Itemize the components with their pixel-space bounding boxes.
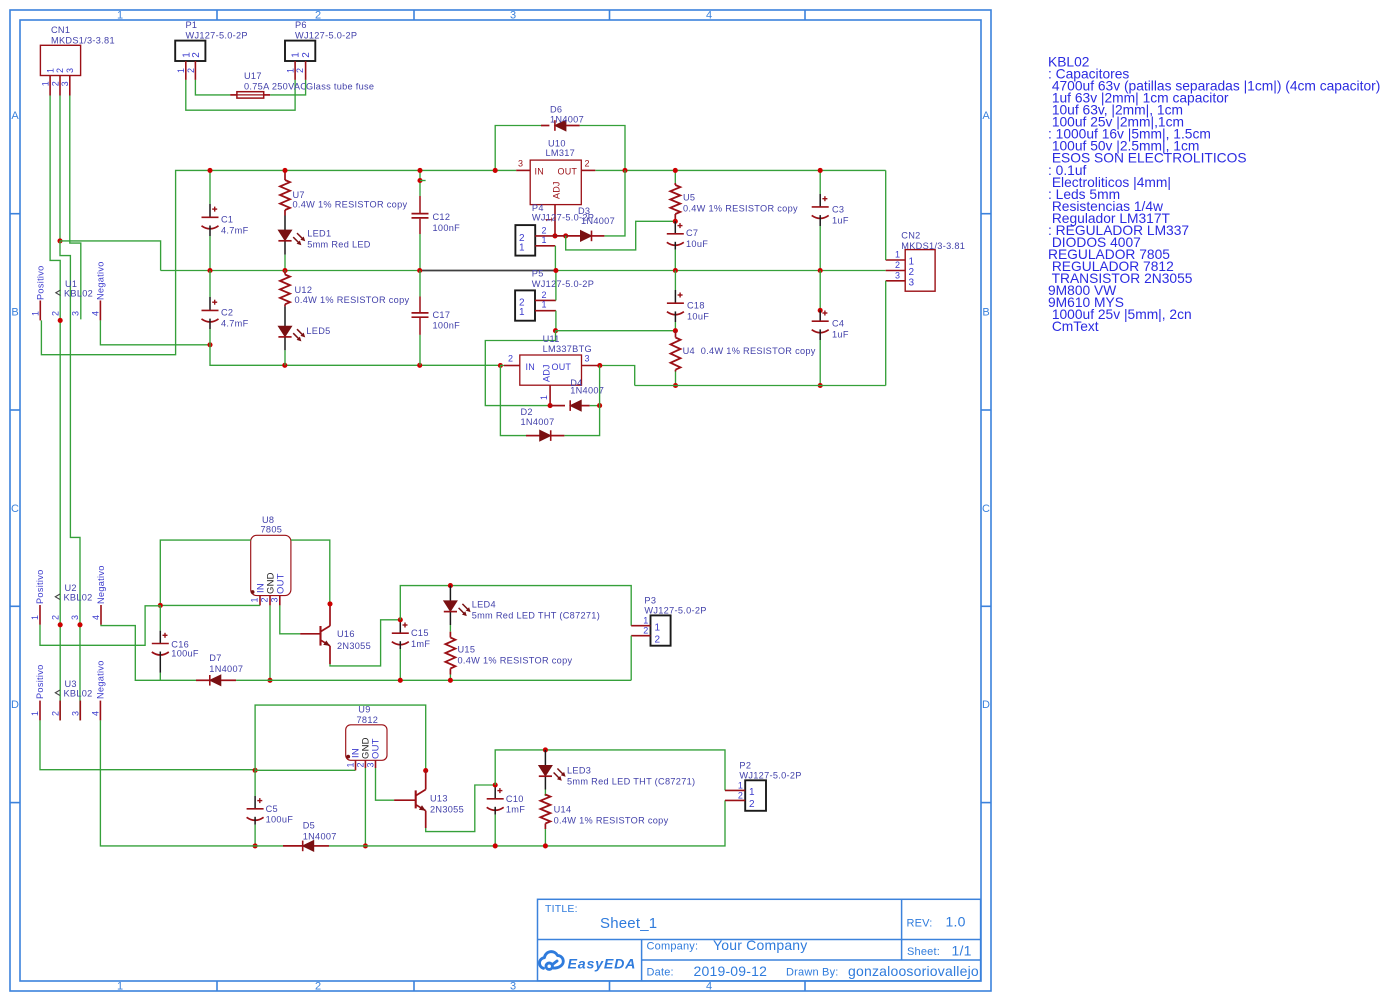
junction U13 collector (423, 768, 428, 773)
junction U15 bottom (448, 678, 453, 683)
svg-text:KBL02: KBL02 (64, 593, 93, 603)
svg-text:2: 2 (315, 981, 321, 993)
svg-text:1N4007: 1N4007 (303, 831, 337, 841)
wire P5.1 to ADJ node (555, 311, 557, 331)
svg-text:2: 2 (895, 260, 900, 270)
regulator U10 LM317 (530, 160, 581, 205)
junction U1 pin2 (58, 318, 63, 323)
capacitor C16 (159, 605, 161, 630)
svg-text:0.4W 1% RESISTOR copy: 0.4W 1% RESISTOR copy (295, 295, 410, 305)
svg-text:A: A (982, 110, 990, 122)
svg-text:3: 3 (60, 81, 70, 86)
wire CN1.2 to U2.3 to U3.3 (60, 241, 80, 721)
svg-text:C3: C3 (832, 204, 844, 214)
transistor U16 2N3055 (300, 633, 320, 635)
junction U2 pin3 (77, 622, 82, 627)
svg-text:2: 2 (186, 68, 196, 73)
svg-text:U1: U1 (65, 279, 77, 289)
wire mid rail green right (556, 270, 886, 272)
svg-text:0.4W 1% RESISTOR copy: 0.4W 1% RESISTOR copy (554, 815, 669, 825)
svg-text:1: 1 (895, 250, 900, 260)
svg-text:U16: U16 (337, 629, 355, 639)
svg-text:2: 2 (585, 159, 590, 169)
wire C2 bottom to neg rail (210, 345, 500, 366)
junction LED3 top (543, 747, 548, 752)
svg-text:REV:: REV: (907, 918, 933, 930)
junction U5 top (673, 168, 678, 173)
svg-text:1: 1 (176, 68, 186, 73)
svg-text:3: 3 (269, 597, 279, 602)
svg-text:1uF: 1uF (832, 215, 849, 225)
svg-text:2: 2 (738, 790, 743, 800)
wire ADJ to U5-C7 node (566, 221, 676, 250)
svg-text:Negativo: Negativo (96, 261, 106, 300)
wire U9 top feed (255, 705, 426, 771)
svg-text:P3: P3 (644, 595, 656, 605)
junction U11 ADJ (548, 403, 553, 408)
capacitor C5 (254, 770, 256, 796)
svg-text:CN2: CN2 (901, 230, 920, 240)
LED LED4 (449, 586, 451, 601)
svg-text:1N4007: 1N4007 (209, 664, 243, 674)
wire U8.3 OUT to base (280, 605, 300, 633)
junction U16 collector (327, 601, 332, 606)
wire 5V node to P3.1 (400, 586, 631, 626)
svg-text:2: 2 (315, 10, 321, 22)
svg-text:OUT: OUT (558, 166, 578, 176)
bridge rectifier U2 (39, 605, 41, 625)
svg-text:1: 1 (30, 711, 40, 716)
junction U11 IN (498, 363, 503, 368)
svg-text:2: 2 (655, 634, 661, 645)
junction C3 bottom (818, 268, 823, 273)
diode D5 (283, 845, 303, 847)
svg-text:Positivo: Positivo (36, 265, 46, 300)
svg-text:1: 1 (45, 68, 55, 73)
junction ADJ (552, 233, 557, 238)
junction U8 GND (267, 678, 272, 683)
junction C4 top (818, 308, 823, 313)
svg-text:3: 3 (585, 354, 590, 364)
svg-text:0.4W 1% RESISTOR copy: 0.4W 1% RESISTOR copy (683, 204, 798, 214)
svg-text:MKDS1/3-3.81: MKDS1/3-3.81 (901, 241, 965, 251)
junction U4 bottom (673, 383, 678, 388)
svg-text:U3: U3 (65, 679, 77, 689)
junction LED5 bottom (282, 363, 287, 368)
svg-text:U10: U10 (548, 139, 566, 149)
svg-text:1: 1 (909, 257, 915, 268)
svg-text:1.0: 1.0 (946, 914, 966, 930)
svg-text:2: 2 (295, 68, 305, 73)
svg-text:P4: P4 (532, 203, 544, 213)
junction C12 bottom (417, 268, 422, 273)
wire U11 IN down (500, 366, 526, 436)
junction U2 pin2 (58, 622, 63, 627)
svg-text:C10: C10 (506, 794, 524, 804)
svg-text:LED3: LED3 (567, 766, 591, 776)
junction D4 right (597, 403, 602, 408)
svg-text:2: 2 (191, 52, 202, 58)
svg-text:U2: U2 (65, 583, 77, 593)
wire IN top feed right (291, 540, 330, 603)
svg-text:C5: C5 (266, 804, 278, 814)
svg-text:3: 3 (71, 711, 81, 716)
svg-text:Positivo: Positivo (35, 664, 45, 699)
svg-text:D: D (982, 699, 990, 711)
wire ADJ net to U11 ADJ (485, 331, 555, 406)
svg-text:WJ127-5.0-2P: WJ127-5.0-2P (739, 771, 801, 781)
wire gnd rail mid (236, 679, 631, 681)
wire D3 to OUT (604, 170, 625, 236)
svg-text:U15: U15 (458, 644, 476, 654)
svg-text:1: 1 (542, 235, 547, 245)
svg-text:1mF: 1mF (506, 805, 525, 815)
svg-text:1: 1 (539, 395, 549, 400)
svg-text:C17: C17 (433, 310, 451, 320)
svg-text:C1: C1 (221, 215, 233, 225)
wire D4 right (590, 405, 600, 407)
svg-text:WJ127-5.0-2P: WJ127-5.0-2P (295, 31, 357, 41)
svg-text:7812: 7812 (357, 715, 379, 725)
wire P3.2 to gnd rail (630, 636, 632, 681)
svg-text:Negativo: Negativo (96, 660, 106, 699)
svg-text:LED1: LED1 (307, 229, 331, 239)
regulator U9 7812 (346, 725, 387, 761)
wire IN top feed (160, 540, 250, 605)
svg-text:C7: C7 (686, 228, 698, 238)
wire 12V gnd rail (329, 800, 725, 846)
svg-text:WJ127-5.0-2P: WJ127-5.0-2P (644, 606, 706, 616)
wire fuse to P6.2 (270, 80, 305, 95)
svg-text:U14: U14 (554, 804, 572, 814)
svg-text:100uF: 100uF (171, 648, 199, 658)
U11 pin 1 ADJ (549, 385, 551, 405)
wire U2.1 to C16 node (40, 606, 160, 646)
diode D2 (526, 435, 540, 437)
svg-text:U4: U4 (683, 346, 695, 356)
svg-text:C12: C12 (433, 212, 451, 222)
capacitor C15 (399, 620, 401, 633)
svg-text:D5: D5 (303, 821, 315, 831)
svg-text:Sheet:: Sheet: (907, 946, 940, 958)
svg-text:2019-09-12: 2019-09-12 (694, 963, 768, 979)
svg-text:1: 1 (749, 787, 755, 798)
connector P4 (515, 225, 535, 256)
svg-text:4: 4 (706, 10, 712, 22)
junction U11 OUT (597, 363, 602, 368)
wire U2.4 to gnd rail (101, 625, 196, 681)
U9 pins (355, 761, 357, 771)
junction U14 bottom (543, 843, 548, 848)
resistor U14 (544, 794, 546, 796)
svg-text:2: 2 (50, 711, 60, 716)
svg-text:OUT: OUT (370, 738, 381, 759)
svg-text:C: C (982, 503, 990, 515)
svg-text:CN1: CN1 (51, 25, 70, 35)
svg-text:4: 4 (706, 981, 712, 993)
U10 pin 1 ADJ (554, 205, 556, 236)
resistor U12 (284, 271, 286, 272)
junction C15 bottom (398, 678, 403, 683)
svg-text:3: 3 (510, 10, 516, 22)
svg-text:P2: P2 (739, 760, 751, 770)
resistor U15 (449, 632, 451, 638)
junction D6 left (493, 168, 498, 173)
U11 pin 2 IN (504, 365, 520, 367)
junction CN1.2 branch (57, 238, 62, 243)
junction C3 top (818, 168, 823, 173)
diode D7 (196, 679, 210, 681)
LED LED3 (544, 750, 546, 766)
notes text block (1048, 55, 1380, 335)
regulator U11 LM337BTG (520, 355, 582, 385)
svg-text:4: 4 (91, 311, 101, 316)
svg-text:C15: C15 (411, 628, 429, 638)
svg-text:1: 1 (117, 10, 123, 22)
svg-text:TITLE:: TITLE: (545, 903, 578, 915)
svg-text:3: 3 (70, 615, 80, 620)
connector CN2 (905, 250, 935, 292)
junction C17 bottom (417, 363, 422, 368)
junction C18 bottom (673, 328, 678, 333)
svg-text:C2: C2 (221, 308, 233, 318)
svg-text:3: 3 (909, 278, 915, 289)
diode D4 (550, 405, 565, 407)
junction OUT rail (622, 168, 627, 173)
svg-text:2: 2 (50, 311, 60, 316)
wire ADJ net to C18 (556, 330, 676, 332)
svg-text:WJ127-5.0-2P: WJ127-5.0-2P (532, 279, 594, 289)
svg-text:2: 2 (643, 626, 648, 636)
svg-text:U9: U9 (358, 705, 370, 715)
svg-text:100uF: 100uF (266, 815, 294, 825)
connector P3 (651, 615, 671, 645)
wire U1.1 to top rail (41, 170, 516, 354)
wire U16 emitter to C15 node (330, 620, 400, 666)
wire mid rail to P5.2 (555, 271, 557, 301)
svg-text:2: 2 (356, 762, 366, 767)
svg-text:1uF: 1uF (832, 330, 849, 340)
capacitor C2 (209, 271, 211, 298)
junction C5 bottom (253, 843, 258, 848)
svg-text:2: 2 (542, 290, 547, 300)
U8 pins (259, 596, 261, 606)
LED LED5 (284, 306, 286, 326)
sheet frame (10, 10, 991, 991)
svg-text:4.7mF: 4.7mF (221, 226, 249, 236)
svg-text:Drawn By:: Drawn By: (786, 967, 839, 979)
junction ADJ net (553, 328, 558, 333)
svg-text:3: 3 (65, 68, 75, 73)
capacitor C17 (419, 271, 421, 297)
svg-text:2: 2 (50, 615, 60, 620)
svg-text:1: 1 (41, 81, 51, 86)
connector CN1 (40, 45, 80, 75)
resistor U5 (674, 170, 676, 183)
svg-text:3: 3 (365, 762, 375, 767)
svg-text:WJ127-5.0-2P: WJ127-5.0-2P (186, 31, 248, 41)
junction C15 top (398, 617, 403, 622)
svg-text:C4: C4 (832, 319, 844, 329)
wire CN2.3 to neg out rail (885, 281, 887, 386)
U11 pin 3 OUT (582, 365, 598, 367)
wire neg out rail (635, 385, 886, 387)
svg-text:1: 1 (346, 762, 356, 767)
wire to mid rail (60, 241, 161, 271)
U10 pin 2 OUT (581, 169, 595, 171)
svg-text:3: 3 (71, 311, 81, 316)
svg-text:7805: 7805 (261, 524, 283, 534)
wire U8.2 GND down (269, 605, 271, 680)
svg-text:Negativo: Negativo (96, 565, 106, 604)
svg-text:KBL02: KBL02 (64, 289, 93, 299)
svg-text:100nF: 100nF (433, 320, 461, 330)
svg-text:D: D (11, 699, 19, 711)
junction C2 bottom (207, 342, 212, 347)
junction ADJ branch (563, 233, 568, 238)
capacitor C3 (819, 170, 821, 194)
svg-text:C: C (11, 503, 19, 515)
wire 12V in to U9.1 (255, 769, 355, 771)
capacitor C10 (494, 785, 496, 799)
transistor U13 2N3055 (394, 799, 416, 801)
wire top rail to CN2.1 (885, 170, 887, 260)
wire U13 emitter to C10 node (426, 785, 496, 832)
svg-text:2: 2 (749, 799, 755, 810)
svg-text:2N3055: 2N3055 (337, 641, 371, 651)
svg-text:IN: IN (535, 166, 544, 176)
junction C10 bottom (493, 843, 498, 848)
svg-text:1mF: 1mF (411, 639, 430, 649)
wire mid rail black segment (420, 270, 556, 272)
connector P2 (745, 780, 766, 811)
junction U7 top (282, 168, 287, 173)
svg-text:4: 4 (91, 615, 101, 620)
connector P1 (175, 41, 205, 61)
connector P5 (515, 290, 535, 320)
wire D6 left (495, 126, 541, 171)
wire CN1.2 down (59, 96, 61, 241)
fuse U17 (230, 94, 237, 96)
svg-text:B: B (982, 307, 989, 319)
diode D6 (541, 125, 549, 127)
wire mid rail green left (161, 270, 420, 272)
connector P6 (285, 41, 315, 61)
svg-text:1: 1 (30, 615, 40, 620)
svg-text:1: 1 (286, 68, 296, 73)
svg-text:10uF: 10uF (687, 312, 709, 322)
svg-text:Your Company: Your Company (713, 937, 808, 953)
svg-text:2N3055: 2N3055 (430, 804, 464, 814)
svg-text:100nF: 100nF (433, 223, 461, 233)
svg-text:D7: D7 (209, 653, 221, 663)
wire U9.3 OUT to base (376, 768, 395, 800)
svg-text:2: 2 (55, 68, 65, 73)
U10 pin 3 IN (516, 169, 530, 171)
svg-text:5mm Red LED: 5mm Red LED (307, 240, 371, 250)
junction C5 top (253, 768, 258, 773)
svg-text:ADJ: ADJ (542, 364, 552, 382)
svg-text:Glass tube fuse: Glass tube fuse (306, 82, 374, 92)
svg-text:IN: IN (526, 362, 535, 372)
svg-text:1: 1 (519, 307, 525, 318)
junction U5-C7 (673, 219, 678, 224)
wire P1.1 to P6.1 (186, 80, 295, 110)
wire U9.2 GND down (364, 768, 366, 846)
junction C1 top (207, 168, 212, 173)
resistor U7 (284, 170, 286, 180)
wire D6 right (580, 126, 625, 171)
wire P4.1 to mid rail (554, 246, 556, 271)
svg-text:Positivo: Positivo (35, 569, 45, 604)
svg-text:1: 1 (291, 52, 302, 58)
LED LED1 (284, 216, 286, 231)
svg-text:2: 2 (50, 81, 60, 86)
wire top rail right of U10 (595, 169, 885, 171)
wire U1.4 to C2 bottom (100, 320, 210, 344)
svg-text:1: 1 (117, 981, 123, 993)
svg-text:MKDS1/3-3.81: MKDS1/3-3.81 (51, 36, 115, 46)
junction LED1 bottom (282, 268, 287, 273)
svg-text:A: A (11, 110, 19, 122)
svg-text:gonzaloosoriovallejo: gonzaloosoriovallejo (848, 963, 979, 979)
svg-text:B: B (11, 307, 18, 319)
capacitor C18 (674, 271, 676, 291)
wire CN1.1 to U1.2 to U2.2 to U3.2 (50, 96, 60, 721)
svg-text:LM337BTG: LM337BTG (543, 344, 592, 354)
regulator U8 7805 (251, 535, 291, 595)
svg-text:C18: C18 (687, 301, 705, 311)
svg-text:4: 4 (91, 711, 101, 716)
bridge rectifier U3 (39, 701, 41, 721)
junction P5 column (553, 268, 558, 273)
capacitor C1 (209, 170, 211, 204)
svg-text:5mm Red LED THT (C87271): 5mm Red LED THT (C87271) (567, 776, 695, 786)
svg-text:1: 1 (655, 622, 661, 633)
capacitor C7 (674, 221, 676, 234)
svg-text:0.4W 1% RESISTOR copy: 0.4W 1% RESISTOR copy (701, 346, 816, 356)
svg-text:1: 1 (643, 616, 648, 626)
frame zone numbers (11, 10, 990, 993)
svg-text:LED5: LED5 (306, 326, 330, 336)
svg-text:LED4: LED4 (472, 599, 496, 609)
svg-text:1: 1 (738, 780, 743, 790)
capacitor C4 (819, 271, 821, 311)
junction C7 bottom (673, 268, 678, 273)
diode D3 (555, 235, 581, 237)
title block (538, 899, 981, 981)
wire U3.1 to 12V in node (40, 720, 255, 769)
svg-text:2: 2 (260, 597, 270, 602)
wire P1.2 to fuse (195, 80, 230, 95)
wire neg rail to U11 IN (500, 364, 504, 366)
svg-text:1: 1 (31, 311, 41, 316)
junction C4 bottom (818, 383, 823, 388)
junction U9 GND (363, 843, 368, 848)
svg-text:U12: U12 (295, 285, 313, 295)
svg-text:LM317: LM317 (546, 148, 576, 158)
svg-text:OUT: OUT (275, 573, 286, 594)
svg-text:Sheet_1: Sheet_1 (600, 915, 657, 932)
junction C1 bottom (207, 268, 212, 273)
junction C10 top (493, 782, 498, 787)
svg-text:P1: P1 (186, 20, 198, 30)
svg-text:U17: U17 (244, 71, 262, 81)
svg-text:P6: P6 (295, 20, 307, 30)
svg-text:EasyEDA: EasyEDA (568, 956, 637, 972)
svg-text:1: 1 (519, 243, 525, 254)
svg-text:CmText: CmText (1048, 319, 1099, 334)
